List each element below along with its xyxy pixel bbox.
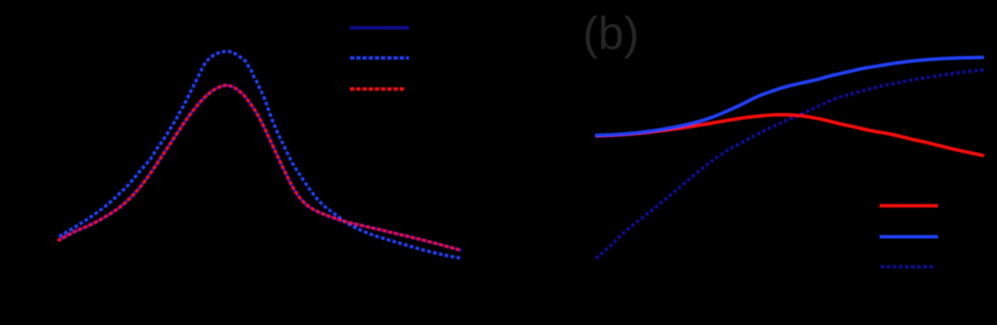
legend a row2: blue dashed sample [350,56,409,59]
curve: navy dotted rising curve (panel b) [596,70,984,259]
curve: blue solid S-curve (panel b) [595,57,984,135]
curve: blue dashed resonance (panel a, taller peak) [59,51,462,258]
curve: red solid shallow arc (panel b) [595,115,984,156]
legend a row1: navy solid sample [350,26,409,29]
legend a row3: red dashed sample [350,87,405,90]
legend b row2: blue solid sample [880,235,939,239]
legend b row1: red solid sample [880,204,939,208]
curve: navy solid resonance (panel a, under red) [59,85,462,250]
svg-text:(b): (b) [583,7,639,59]
legend b row3: navy dotted sample [881,265,935,269]
curve: red dotted resonance (panel a) [59,85,462,250]
